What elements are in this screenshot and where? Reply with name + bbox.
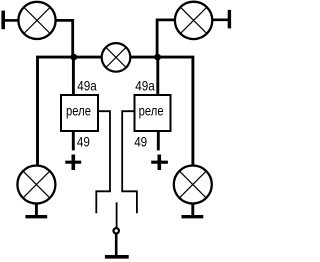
ground middle: [105, 255, 129, 259]
svg-text:реле: реле: [66, 103, 91, 118]
relay K2 right: [135, 95, 171, 131]
switch pivot node: [114, 228, 119, 233]
relay K1 left: [61, 95, 98, 131]
svg-text:49: 49: [134, 134, 147, 149]
lamp top-left: [18, 2, 55, 39]
lamp top-right: [175, 2, 212, 39]
wire bottom-right lamp to ground: [191, 204, 194, 216]
wire left relay to switch contact: [96, 111, 110, 213]
svg-text:реле: реле: [139, 103, 164, 118]
svg-text:49: 49: [77, 134, 90, 149]
plus right: [151, 155, 168, 171]
wire switch to ground: [115, 234, 118, 255]
junction left: [70, 54, 77, 61]
wire from top-left lamp to left junction: [56, 20, 73, 57]
ground bottom-left: [25, 215, 47, 218]
wire bottom-left lamp to ground: [35, 204, 38, 216]
lamp middle: [102, 43, 131, 72]
wire from right junction to top-right lamp: [157, 20, 174, 57]
ground bottom-right: [182, 215, 204, 218]
wire right junction to right relay: [156, 57, 159, 95]
svg-text:49а: 49а: [77, 77, 97, 93]
junction right: [154, 54, 161, 61]
wire right relay to switch contact: [122, 111, 137, 213]
wire left relay terminal 49: [72, 131, 75, 150]
terminal left: [3, 11, 19, 30]
lamp bottom-right: [174, 166, 212, 204]
wire bus with left and right risers: [38, 57, 193, 165]
lamp bottom-left: [17, 166, 55, 204]
terminal right: [213, 10, 230, 29]
wire right relay terminal 49: [157, 131, 160, 150]
svg-text:49а: 49а: [135, 77, 155, 93]
wire left junction to left relay: [72, 57, 75, 95]
switch pole wire: [116, 202, 118, 228]
plus left: [65, 155, 81, 171]
